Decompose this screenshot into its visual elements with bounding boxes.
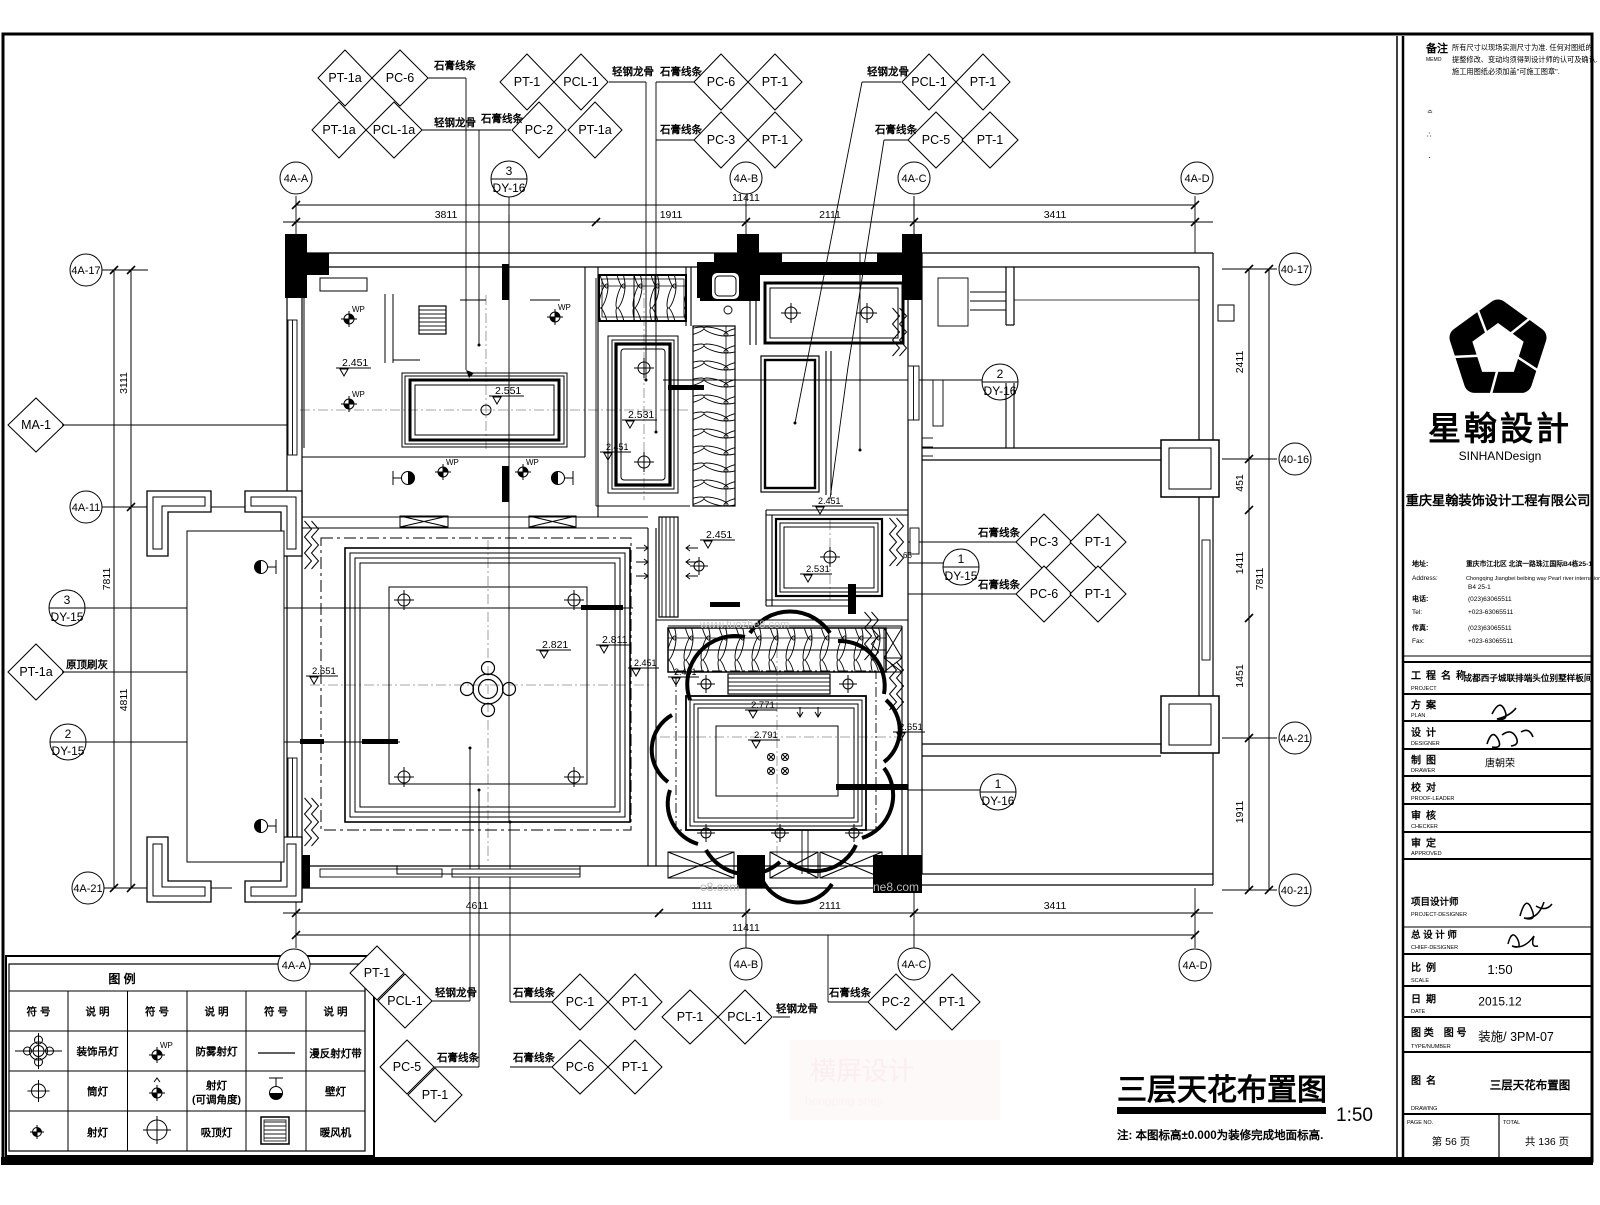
downlight <box>771 824 789 842</box>
svg-text:提整修改、变动均须得到设计师的认可及确认.: 提整修改、变动均须得到设计师的认可及确认. <box>1452 55 1598 64</box>
svg-text:轻钢龙骨: 轻钢龙骨 <box>776 1002 818 1015</box>
svg-text:比 例: 比 例 <box>1411 961 1436 974</box>
svg-text:2411: 2411 <box>1234 351 1246 374</box>
svg-text:(023)63065511: (023)63065511 <box>1468 596 1512 603</box>
svg-text:PC-2: PC-2 <box>882 995 911 1009</box>
downlight <box>564 590 584 610</box>
svg-text:漫反射灯带: 漫反射灯带 <box>309 1047 362 1060</box>
shower black box <box>700 262 760 301</box>
svg-text:PT-1a: PT-1a <box>19 665 52 679</box>
grid bubble 4A-C <box>898 162 930 194</box>
elevation 2.771 <box>745 700 777 718</box>
svg-text:石膏线条: 石膏线条 <box>480 112 523 125</box>
svg-text:图 名: 图 名 <box>1411 1074 1436 1087</box>
svg-text:轻钢龙骨: 轻钢龙骨 <box>435 986 477 999</box>
nested ceiling moulding <box>776 519 882 596</box>
wall lamp <box>552 471 574 485</box>
living medallion <box>461 662 516 717</box>
svg-text:2.821: 2.821 <box>542 639 568 651</box>
living room dash-dot border <box>321 538 631 830</box>
nested ceiling moulding <box>345 548 630 822</box>
svg-text:40-17: 40-17 <box>1281 264 1309 276</box>
downlight <box>564 767 584 787</box>
grid bubble 4A-A <box>278 949 310 981</box>
svg-text:射灯: 射灯 <box>205 1079 227 1092</box>
finish tag PT-1 <box>608 1040 662 1094</box>
svg-text:2111: 2111 <box>819 900 841 912</box>
finish tag PT-1 <box>350 946 404 1000</box>
svg-text:4A-B: 4A-B <box>734 173 758 185</box>
svg-text:∴: ∴ <box>1427 132 1432 139</box>
svg-text:3411: 3411 <box>1044 900 1067 912</box>
svg-text:PC-3: PC-3 <box>707 133 736 147</box>
finish tag PCL-1a <box>366 102 422 158</box>
downlight <box>634 452 654 472</box>
svg-text:PT-1a: PT-1a <box>328 71 361 85</box>
svg-text:PC-3: PC-3 <box>1030 535 1059 549</box>
svg-text:40-21: 40-21 <box>1281 885 1309 897</box>
elevation 2.651 <box>893 722 925 740</box>
finish tag PT-1 <box>500 54 554 110</box>
svg-text:PROJECT: PROJECT <box>1411 686 1437 692</box>
downlight <box>143 1116 171 1144</box>
elevation 2.531 <box>800 564 832 582</box>
svg-text:轻钢龙骨: 轻钢龙骨 <box>612 65 654 78</box>
svg-text:设 计: 设 计 <box>1411 726 1436 739</box>
svg-text:PT-1: PT-1 <box>1085 535 1111 549</box>
svg-text:3: 3 <box>506 164 513 178</box>
section callout 3/DY-15 <box>49 590 85 626</box>
wing window sill lines top room <box>933 278 1006 426</box>
svg-text:WP: WP <box>160 1041 173 1050</box>
svg-text:总 设 计 师: 总 设 计 师 <box>1411 929 1457 941</box>
svg-text:7811: 7811 <box>1254 568 1266 591</box>
svg-text:DRAWING: DRAWING <box>1411 1106 1437 1112</box>
svg-text:项目设计师: 项目设计师 <box>1411 896 1459 908</box>
svg-text:轻钢龙骨: 轻钢龙骨 <box>867 65 909 78</box>
svg-text:备注: 备注 <box>1425 41 1448 55</box>
svg-text:石膏线条: 石膏线条 <box>659 123 702 136</box>
svg-text:PT-1: PT-1 <box>422 1088 448 1102</box>
svg-text:1111: 1111 <box>691 900 712 912</box>
finish tag PC-5 <box>380 1040 434 1094</box>
svg-text:石膏线条: 石膏线条 <box>436 1051 479 1064</box>
svg-text:PC-6: PC-6 <box>1030 587 1059 601</box>
grid bubble 4A-21 <box>1279 722 1311 754</box>
svg-text:壁灯: 壁灯 <box>325 1085 346 1098</box>
downlight <box>857 303 877 323</box>
svg-text:石膏线条: 石膏线条 <box>977 578 1020 591</box>
grid bubble 40-21 <box>1279 874 1311 906</box>
finish tag MA-1 <box>8 398 64 452</box>
svg-text:PT-1: PT-1 <box>1085 587 1111 601</box>
interior partitions <box>302 267 908 866</box>
svg-text:PC-5: PC-5 <box>393 1060 422 1074</box>
svg-text:APPROVED: APPROVED <box>1411 851 1442 857</box>
finish tag PT-1 <box>608 974 662 1030</box>
svg-text:传真:: 传真: <box>1411 623 1428 632</box>
svg-text:重庆星翰装饰设计工程有限公司: 重庆星翰装饰设计工程有限公司 <box>1406 492 1591 508</box>
svg-text:1: 1 <box>995 777 1002 791</box>
finish tag PT-1a <box>312 102 366 158</box>
svg-text:3411: 3411 <box>1044 209 1067 221</box>
svg-text:≏: ≏ <box>1427 109 1433 116</box>
elevation 2.451 <box>700 529 735 548</box>
nested ceiling moulding <box>608 336 678 493</box>
bath room face <box>595 278 597 506</box>
downlight <box>394 590 414 610</box>
svg-text:校 对: 校 对 <box>1411 781 1436 794</box>
svg-text:装饰吊灯: 装饰吊灯 <box>76 1045 119 1058</box>
terrace planters <box>147 491 302 902</box>
finish tag PC-2 <box>868 974 924 1030</box>
svg-text:施工用图纸必须加盖"可施工图章".: 施工用图纸必须加盖"可施工图章". <box>1452 67 1560 76</box>
svg-text:PT-1: PT-1 <box>762 75 788 89</box>
living bottom window step <box>397 866 580 874</box>
grid bubble 4A-D <box>1179 949 1211 981</box>
svg-text:电话:: 电话: <box>1412 594 1428 603</box>
svg-text:2.451: 2.451 <box>634 658 657 668</box>
bedroom1 closet & wardrobe <box>304 278 560 448</box>
elevation 2.651 <box>306 666 338 684</box>
svg-text:方 案: 方 案 <box>1411 699 1437 712</box>
svg-text:1:50: 1:50 <box>1487 962 1512 977</box>
svg-text:PAGE NO.: PAGE NO. <box>1407 1120 1434 1126</box>
svg-text:4A-D: 4A-D <box>1184 173 1209 185</box>
svg-text:7811: 7811 <box>101 568 113 591</box>
legend: heater fan <box>261 1117 289 1144</box>
svg-text:2.551: 2.551 <box>495 385 521 397</box>
wall lamp <box>255 819 277 833</box>
svg-text:4A-11: 4A-11 <box>72 502 101 514</box>
hall vent grille <box>659 517 678 617</box>
svg-text:4A-B: 4A-B <box>734 959 758 971</box>
elevation 2.451 <box>600 442 631 460</box>
svg-text:说 明: 说 明 <box>324 1005 348 1018</box>
bedroom2 flat panel <box>765 283 903 343</box>
elevation 2.451 <box>812 496 843 514</box>
downlight <box>845 824 863 842</box>
watermark <box>699 619 919 894</box>
svg-text:WP: WP <box>526 458 539 467</box>
svg-text:PT-1: PT-1 <box>762 133 788 147</box>
WP spotlight <box>341 305 365 327</box>
svg-text:共 136 页: 共 136 页 <box>1525 1136 1569 1148</box>
svg-text:PCL-1a: PCL-1a <box>373 123 415 137</box>
downlight <box>634 358 654 378</box>
grid bubble 40-16 <box>1279 443 1311 475</box>
svg-text:PT-1: PT-1 <box>622 995 648 1009</box>
downlight <box>839 675 857 693</box>
windows on walls <box>288 320 1210 877</box>
svg-text:石膏线条: 石膏线条 <box>828 986 871 999</box>
elevation 2.451 <box>336 357 371 376</box>
elevation 2.531 <box>622 409 657 428</box>
finish tag PCL-1 <box>378 974 432 1028</box>
svg-text:石膏线条: 石膏线条 <box>977 526 1020 539</box>
svg-text:4A-17: 4A-17 <box>71 265 100 277</box>
svg-text:PCL-1: PCL-1 <box>387 994 422 1008</box>
corridor window hatches <box>400 516 448 527</box>
svg-text:2.531: 2.531 <box>628 409 654 421</box>
curtain zigzags <box>305 521 312 569</box>
finish tag PCL-1 <box>902 54 956 110</box>
grid bubble 4A-21 <box>72 872 104 904</box>
wall lamp <box>269 1078 283 1100</box>
bath fan-coil box <box>599 275 686 321</box>
svg-text:重庆市江北区 北滨一路珠江国际B4栋25-1: 重庆市江北区 北滨一路珠江国际B4栋25-1 <box>1466 559 1592 568</box>
finish tag PC-6 <box>552 1040 608 1094</box>
svg-text:4A-C: 4A-C <box>901 959 926 971</box>
svg-text:符 号: 符 号 <box>27 1005 51 1018</box>
WP spotlight <box>547 303 571 325</box>
svg-text:451: 451 <box>1234 474 1246 492</box>
svg-text:说 明: 说 明 <box>205 1005 229 1018</box>
svg-text:Address:: Address: <box>1412 575 1438 582</box>
finish tag PT-1 <box>748 54 802 110</box>
legend: diffuse light strip <box>258 1052 295 1054</box>
svg-text:4A-21: 4A-21 <box>1280 733 1309 745</box>
finish tag PC-1 <box>552 974 608 1030</box>
svg-text:PC-6: PC-6 <box>386 71 415 85</box>
svg-text:2.771: 2.771 <box>751 700 775 711</box>
svg-text:DY-15: DY-15 <box>945 569 978 583</box>
svg-text:唐朝荣: 唐朝荣 <box>1485 757 1515 770</box>
svg-text:4811: 4811 <box>118 689 130 712</box>
legend: decorative chandelier <box>15 1033 62 1069</box>
finish tag PT-1 <box>408 1068 462 1122</box>
svg-text:WP: WP <box>352 305 365 314</box>
svg-text:3111: 3111 <box>118 372 130 394</box>
svg-text:4A-21: 4A-21 <box>73 883 102 895</box>
svg-text:吸顶灯: 吸顶灯 <box>201 1126 233 1139</box>
downlight <box>697 675 715 693</box>
svg-text:1911: 1911 <box>660 209 683 221</box>
svg-text:审 定: 审 定 <box>1411 837 1436 850</box>
svg-text:ne8.com: ne8.com <box>873 880 919 894</box>
svg-text:2: 2 <box>65 727 72 741</box>
finish tag PT-1 <box>962 112 1018 168</box>
svg-text:DATE: DATE <box>1411 1009 1426 1015</box>
svg-text:PT-1: PT-1 <box>364 966 390 980</box>
svg-text:2111: 2111 <box>819 209 841 221</box>
legend: adjustable spotlight <box>149 1078 165 1101</box>
svg-text:2.451: 2.451 <box>342 357 368 369</box>
svg-text:三层天花布置图: 三层天花布置图 <box>1490 1078 1571 1092</box>
svg-text:+023-63065511: +023-63065511 <box>1468 638 1514 645</box>
svg-text:1: 1 <box>958 552 965 566</box>
svg-text:PC-1: PC-1 <box>566 995 595 1009</box>
elevation 2.551 <box>489 385 524 404</box>
svg-text:PROJECT-DESIGNER: PROJECT-DESIGNER <box>1411 912 1467 918</box>
bottom dimension lines <box>283 912 1213 914</box>
svg-text:hengping sheji: hengping sheji <box>805 1094 882 1108</box>
downlight <box>820 547 840 567</box>
svg-text:所有尺寸以现场实测尺寸为准. 任何对图纸的: 所有尺寸以现场实测尺寸为准. 任何对图纸的 <box>1452 43 1593 52</box>
svg-text:www.tuozhe8.com: www.tuozhe8.com <box>699 619 789 631</box>
svg-text:PT-1a: PT-1a <box>578 123 611 137</box>
grid bubble 4A-B <box>730 162 762 194</box>
svg-text:CHECKER: CHECKER <box>1411 824 1438 830</box>
solid columns <box>285 234 307 298</box>
top grid extension lines <box>295 196 297 253</box>
section callout 2/DY-16 <box>982 364 1018 400</box>
WP spotlight <box>435 458 459 480</box>
svg-text:4A-A: 4A-A <box>282 960 307 972</box>
finish tag PCL-1 <box>554 54 608 110</box>
svg-text:PCL-1: PCL-1 <box>727 1010 762 1024</box>
svg-text:4A-A: 4A-A <box>284 173 309 185</box>
finish tag PT-1 <box>662 990 718 1044</box>
finish tag PC-6 <box>1016 566 1072 622</box>
finish tag PT-1 <box>956 54 1010 110</box>
grid bubble 4A-B <box>730 948 762 980</box>
finish tag PC-5 <box>908 112 964 168</box>
nested ceiling moulding <box>686 696 866 830</box>
svg-text:4611: 4611 <box>466 900 489 912</box>
svg-text:制 图: 制 图 <box>1411 754 1436 767</box>
grid bubble 4A-11 <box>70 491 102 523</box>
right dimension lines <box>1248 269 1250 890</box>
centerlines (dash-dot grey) <box>300 280 900 862</box>
svg-text:PC-6: PC-6 <box>566 1060 595 1074</box>
svg-text:成都西子城联排端头位别墅样板间: 成都西子城联排端头位别墅样板间 <box>1464 672 1593 683</box>
elevation 2.451 <box>668 667 699 685</box>
svg-text:说 明: 说 明 <box>86 1005 110 1018</box>
svg-text:2.651: 2.651 <box>899 722 923 733</box>
svg-text:PC-5: PC-5 <box>922 133 951 147</box>
finish tag PT-1 <box>924 974 980 1030</box>
svg-text:2.791: 2.791 <box>754 730 778 741</box>
svg-text:SCALE: SCALE <box>1411 978 1429 984</box>
svg-text:e8.com: e8.com <box>700 880 739 894</box>
wall lamp <box>255 560 277 574</box>
dining grille <box>728 674 830 694</box>
downlight <box>28 1080 50 1102</box>
svg-text:(023)63065511: (023)63065511 <box>1468 625 1512 632</box>
svg-text:PC-2: PC-2 <box>525 123 554 137</box>
elevation 2.811 <box>596 634 631 653</box>
svg-text:SINHANDesign: SINHANDesign <box>1459 449 1542 463</box>
svg-text:PCL-1: PCL-1 <box>563 75 598 89</box>
svg-text:(可调角度): (可调角度) <box>192 1093 241 1106</box>
dining scallop arcs <box>687 636 745 700</box>
svg-text:石膏线条: 石膏线条 <box>433 59 476 72</box>
svg-text:DESIGNER: DESIGNER <box>1411 741 1440 747</box>
svg-text:PROOF-LEADER: PROOF-LEADER <box>1411 796 1454 802</box>
svg-text:石膏线条: 石膏线条 <box>874 123 917 136</box>
svg-text:DRAWER: DRAWER <box>1411 768 1435 774</box>
svg-text:Fax:: Fax: <box>1412 638 1425 645</box>
svg-text:MEMO: MEMO <box>1426 57 1442 63</box>
svg-text:TOTAL: TOTAL <box>1503 1120 1520 1126</box>
bath duct leaf strip <box>693 326 735 506</box>
svg-text:射灯: 射灯 <box>86 1126 108 1139</box>
svg-text:2.651: 2.651 <box>312 666 336 677</box>
svg-text:2.451: 2.451 <box>606 442 629 452</box>
WP spotlight <box>515 458 539 480</box>
right grid leader lines <box>1222 268 1277 270</box>
svg-text:三层天花布置图: 三层天花布置图 <box>1117 1074 1327 1107</box>
finish tag PT-1 <box>1070 514 1126 570</box>
svg-text:符 号: 符 号 <box>264 1005 288 1018</box>
svg-text:·: · <box>1428 152 1431 162</box>
svg-text:1911: 1911 <box>1234 801 1246 824</box>
dining dash-dot <box>676 671 876 830</box>
elevation 2.821 <box>536 639 571 658</box>
svg-text:B4 25-1: B4 25-1 <box>1468 584 1491 591</box>
svg-text:PT-1: PT-1 <box>622 1060 648 1074</box>
svg-text:石膏线条: 石膏线条 <box>512 986 555 999</box>
svg-text:CHIEF-DESIGNER: CHIEF-DESIGNER <box>1411 945 1458 951</box>
svg-text:符 号: 符 号 <box>145 1005 169 1018</box>
svg-text:DY-15: DY-15 <box>51 610 84 624</box>
svg-text:WP: WP <box>558 303 571 312</box>
hall arrows <box>636 545 648 551</box>
svg-text:横屏设计: 横屏设计 <box>810 1056 914 1086</box>
svg-text:地址:: 地址: <box>1412 559 1428 568</box>
finish tag PT-1 <box>1070 566 1126 622</box>
svg-text:原顶刷灰: 原顶刷灰 <box>66 658 108 671</box>
section callout 3/DY-16 <box>491 161 527 197</box>
svg-text:第 56 页: 第 56 页 <box>1432 1135 1471 1148</box>
svg-text:2015.12: 2015.12 <box>1478 995 1522 1009</box>
grid bubble 4A-C <box>898 948 930 980</box>
title block separator <box>1396 36 1398 1157</box>
svg-text:图 例: 图 例 <box>108 971 135 986</box>
svg-text:4A-D: 4A-D <box>1182 960 1207 972</box>
svg-text:2.531: 2.531 <box>806 564 830 575</box>
finish tag PT-1a <box>318 50 372 106</box>
svg-text:2.451: 2.451 <box>818 496 841 506</box>
grid bubble 4A-D <box>1181 162 1213 194</box>
svg-text:PT-1: PT-1 <box>977 133 1003 147</box>
top dimension lines <box>296 204 1195 206</box>
svg-text:3: 3 <box>64 593 71 607</box>
finish tag PT-1 <box>748 112 802 168</box>
wall lamp <box>393 471 415 485</box>
leader drop lines <box>859 253 861 450</box>
downlight <box>781 303 801 323</box>
finish tag PC-6 <box>372 50 428 106</box>
svg-text:Chongqing Jiangbei beibing way: Chongqing Jiangbei beibing way Pearl riv… <box>1466 576 1600 582</box>
svg-text:防雾射灯: 防雾射灯 <box>196 1045 238 1058</box>
svg-text:暖风机: 暖风机 <box>320 1126 352 1139</box>
downlight <box>697 824 715 842</box>
svg-text:PT-1: PT-1 <box>677 1010 703 1024</box>
svg-text:审 核: 审 核 <box>1411 809 1436 822</box>
finish tag PT-1a <box>568 102 622 158</box>
svg-text:1:50: 1:50 <box>1336 1105 1373 1126</box>
elevation 2.451 <box>628 658 659 676</box>
finish tag PT-1a <box>8 644 64 700</box>
finish tag PCL-1 <box>718 990 772 1044</box>
svg-text:40-16: 40-16 <box>1281 454 1309 466</box>
svg-text:+023-63065511: +023-63065511 <box>1468 609 1514 616</box>
dining bottom X boxes <box>668 852 734 878</box>
svg-text:工 程 名 称: 工 程 名 称 <box>1411 669 1466 682</box>
WP spotlight <box>149 1041 173 1063</box>
svg-text:日 期: 日 期 <box>1411 993 1436 1006</box>
svg-text:4A-C: 4A-C <box>901 173 926 185</box>
svg-text:MA-1: MA-1 <box>21 418 51 432</box>
svg-text:石膏线条: 石膏线条 <box>512 1051 555 1064</box>
svg-text:WP: WP <box>446 458 459 467</box>
exterior walls <box>283 253 1213 888</box>
page rows <box>1498 1114 1500 1157</box>
title block row lines <box>1403 655 1592 657</box>
svg-text:65: 65 <box>903 551 912 560</box>
